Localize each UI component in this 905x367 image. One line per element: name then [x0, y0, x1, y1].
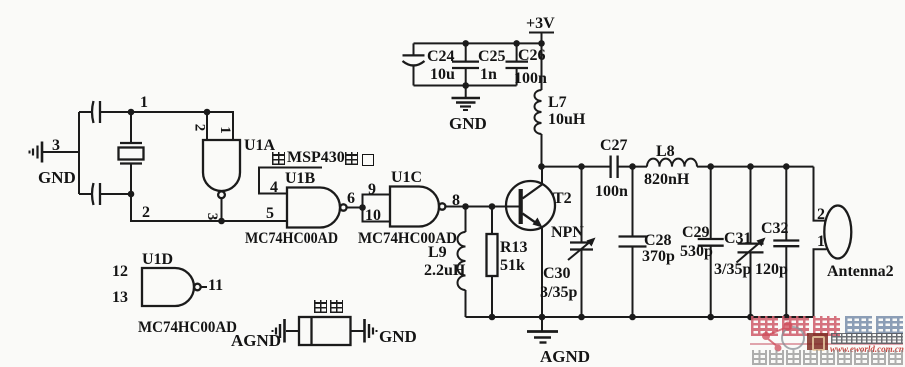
svg-text:C27: C27 [600, 137, 628, 154]
wire bottom branch right [100, 193, 131, 195]
svg-text:C24: C24 [427, 48, 455, 65]
svg-text:2.2uH: 2.2uH [424, 262, 466, 279]
power +3V [526, 15, 555, 43]
capacitor C29 [698, 167, 724, 317]
junction C25 top [462, 40, 469, 47]
capacitor C26 [506, 43, 529, 85]
svg-text:C32: C32 [761, 220, 789, 237]
svg-text:U1A: U1A [244, 137, 276, 154]
capacitor C25 [452, 43, 479, 85]
ground GND bypass [452, 86, 481, 111]
watermark logo square [807, 333, 828, 350]
capacitor top coupling [92, 101, 100, 123]
junction at U1A input [204, 109, 211, 116]
node crystal bottom [128, 191, 135, 198]
svg-text:Antenna2: Antenna2 [827, 263, 894, 280]
wire top branch left [79, 111, 92, 113]
svg-text:120p: 120p [755, 261, 788, 278]
svg-text:13: 13 [112, 289, 128, 306]
svg-text:U1B: U1B [285, 170, 316, 187]
svg-text:AGND: AGND [231, 331, 281, 350]
junction C29 bottom [707, 314, 714, 321]
junction R13 bottom [489, 314, 496, 321]
capacitor C31 trimmer [737, 167, 766, 317]
svg-text:+3V: +3V [526, 15, 555, 32]
inductor L8 [647, 159, 697, 167]
svg-text:MC74HC00AD: MC74HC00AD [245, 230, 338, 247]
watermark underline [750, 343, 903, 345]
node L9 tap [462, 203, 469, 210]
svg-text:MC74HC00AD: MC74HC00AD [138, 319, 237, 336]
node 1 [128, 109, 135, 116]
svg-text:C31: C31 [724, 230, 752, 247]
svg-text:820nH: 820nH [644, 171, 690, 188]
svg-text:C30: C30 [543, 265, 571, 282]
svg-text:9: 9 [368, 181, 376, 198]
junction U1A output on node2 [218, 218, 225, 225]
junction C30 top [578, 163, 585, 170]
junction C28 top [629, 163, 636, 170]
inductor L9 [458, 207, 466, 318]
crystal Y1 [119, 112, 144, 194]
junction GND tap [462, 82, 469, 89]
svg-text:L7: L7 [548, 94, 567, 111]
svg-text:1: 1 [140, 94, 148, 111]
svg-text:11: 11 [208, 277, 223, 294]
node R13 tap [489, 203, 496, 210]
op-amp U1A nand body [203, 140, 240, 221]
svg-text:GND: GND [449, 114, 487, 133]
wire bead left [286, 330, 299, 332]
svg-text:4: 4 [270, 179, 278, 196]
svg-text:8: 8 [452, 192, 460, 209]
svg-text:C29: C29 [682, 224, 710, 241]
wire bead right [351, 330, 364, 332]
svg-text:10u: 10u [430, 66, 455, 83]
wire bypass bottom rail [414, 85, 517, 87]
svg-text:L9: L9 [428, 244, 447, 261]
svg-text:2: 2 [817, 206, 825, 223]
svg-text:12: 12 [112, 263, 128, 280]
wire emitter down [541, 227, 543, 317]
capacitor C28 [619, 167, 647, 317]
svg-text:2: 2 [142, 204, 150, 221]
wire RF rail right [697, 166, 814, 168]
junction C32 bottom [783, 314, 790, 321]
capacitor C32 [773, 167, 799, 317]
capacitor C30 trimmer [568, 167, 596, 317]
svg-text:3/35p: 3/35p [540, 284, 577, 301]
capacitor C27 [611, 156, 618, 179]
node 6 [359, 204, 366, 211]
junction C32 top [783, 163, 790, 170]
svg-text:2: 2 [192, 124, 208, 132]
wire bottom rail [466, 316, 814, 318]
svg-text:100n: 100n [595, 183, 628, 200]
capacitor C24 [403, 43, 425, 85]
wire node1 to U1A inputs [131, 112, 233, 140]
junction +3V rail [538, 40, 545, 47]
svg-text:T2: T2 [553, 190, 572, 207]
ferrite bead [299, 317, 351, 345]
watermark logo doodle [748, 314, 818, 356]
svg-text:L8: L8 [656, 143, 675, 160]
svg-text:10: 10 [365, 207, 381, 224]
svg-text:C28: C28 [644, 232, 672, 249]
svg-text:3: 3 [204, 213, 220, 221]
capacitor bottom coupling [92, 183, 100, 205]
junction C28 bottom [629, 314, 636, 321]
wire left vertical [78, 112, 80, 194]
wire ground to oscillator [43, 151, 79, 153]
svg-text:C25: C25 [478, 48, 506, 65]
junction C26 top [513, 40, 520, 47]
wire node2 run [131, 194, 287, 221]
op-amp U1D nand body [142, 268, 207, 306]
svg-text:6: 6 [347, 190, 355, 207]
antenna Antenna2 [814, 167, 852, 317]
svg-text:GND: GND [38, 168, 76, 187]
wire top branch right [100, 111, 131, 113]
wire node 8 run to base [445, 206, 519, 208]
op-amp U1C nand body [390, 187, 445, 227]
wire U1A input stub [206, 112, 208, 140]
wire U1B output [347, 207, 363, 209]
svg-text:1: 1 [817, 233, 825, 250]
svg-text:U1D: U1D [142, 251, 173, 268]
transistor T2 [506, 181, 555, 230]
junction collector rail [538, 163, 545, 170]
svg-text:3/35p: 3/35p [714, 261, 751, 278]
junction C31 top [747, 163, 754, 170]
ground GND bead [365, 319, 377, 343]
ground AGND main [527, 317, 558, 343]
wire bottom branch left [79, 193, 92, 195]
wire bypass top rail [414, 42, 543, 44]
wire collector up [541, 167, 543, 185]
svg-text:530p: 530p [680, 243, 713, 260]
svg-text:370p: 370p [642, 248, 675, 265]
inductor L7 [535, 43, 542, 166]
op-amp U1B nand body [287, 188, 347, 228]
svg-text:U1C: U1C [391, 169, 422, 186]
junction C30 bottom [578, 314, 585, 321]
svg-text:1: 1 [217, 126, 233, 134]
wire MSP430 interface to pin4 [259, 168, 322, 194]
svg-text:1n: 1n [480, 66, 497, 83]
svg-text:R13: R13 [500, 239, 528, 256]
svg-text:5: 5 [266, 205, 274, 222]
ground AGND bead [273, 319, 285, 343]
watermark url [830, 344, 904, 354]
wire RF rail left [542, 166, 611, 168]
junction C31 bottom [747, 314, 754, 321]
resistor R13 [487, 207, 498, 318]
wire RF rail mid [618, 166, 647, 168]
wire U1C input bracket [363, 195, 391, 222]
svg-text:GND: GND [379, 327, 417, 346]
svg-text:10uH: 10uH [548, 111, 586, 128]
svg-text:51k: 51k [500, 257, 525, 274]
ground GND left of crystal [30, 142, 43, 163]
junction C29 top [707, 163, 714, 170]
svg-text:AGND: AGND [540, 347, 590, 366]
svg-text:NPN: NPN [551, 224, 584, 241]
watermark small site name [831, 333, 903, 344]
junction emitter bottom [539, 314, 546, 321]
